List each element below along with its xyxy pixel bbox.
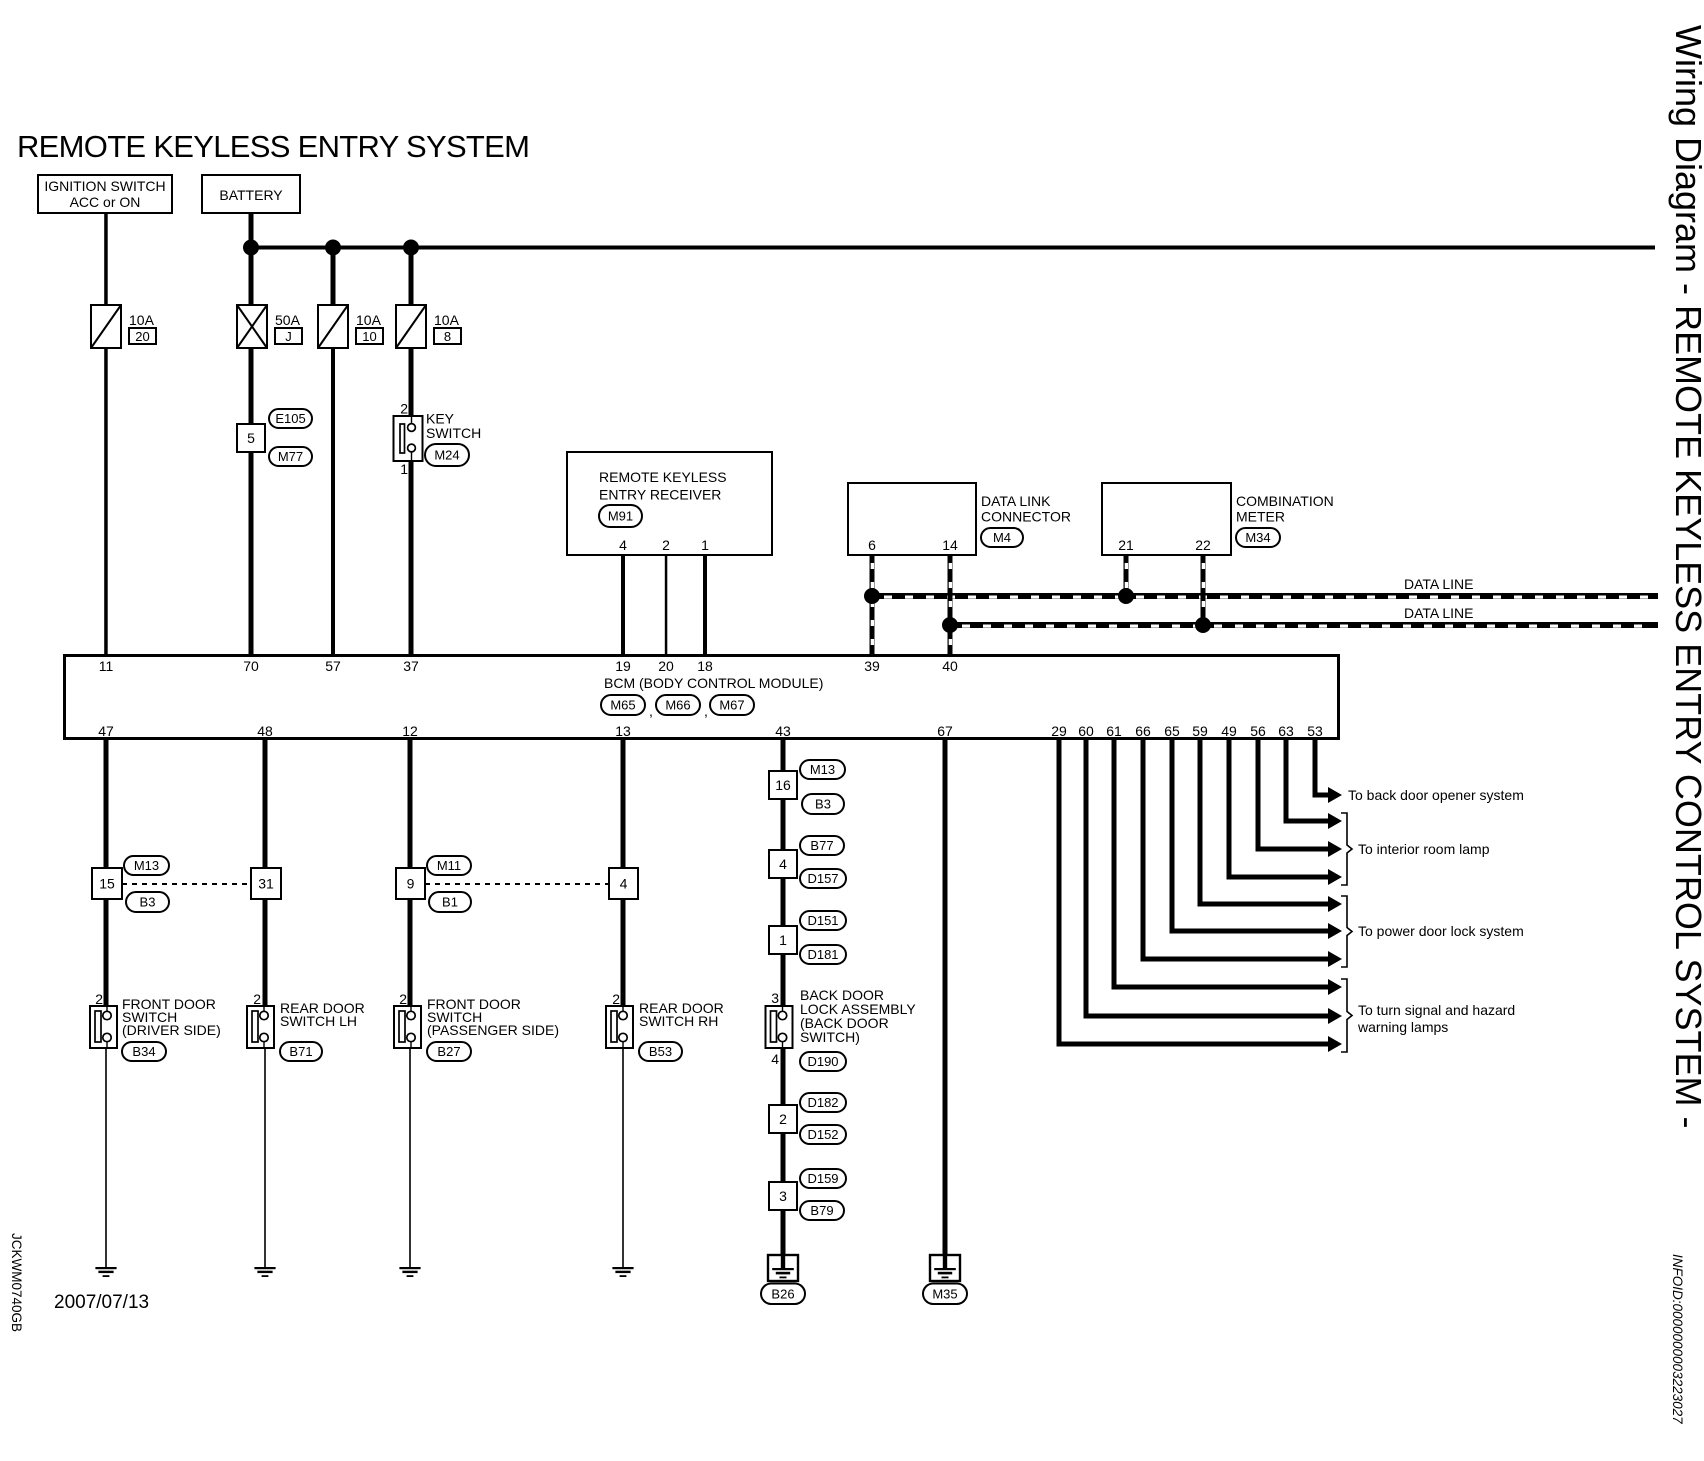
svg-text:M77: M77 (278, 449, 303, 464)
node To power door lock system (1358, 923, 1524, 939)
wire BCM pin 56 output (1256, 740, 1343, 857)
key switch label (426, 411, 481, 442)
svg-text:REMOTE KEYLESS: REMOTE KEYLESS (599, 469, 727, 485)
BCM pin 63 (1278, 723, 1294, 739)
svg-text:To power door lock system: To power door lock system (1358, 923, 1524, 939)
svg-text:14: 14 (942, 537, 958, 553)
svg-text:3: 3 (779, 1188, 787, 1204)
wire BCM pin 65 output (1170, 740, 1343, 939)
wire connector 9 to front door switch passenger side (408, 899, 413, 1006)
svg-text:M67: M67 (719, 698, 744, 713)
wire connector 15 to front door switch driver side (104, 899, 109, 1006)
svg-text:D181: D181 (807, 947, 838, 962)
svg-text:18: 18 (697, 658, 713, 674)
connector B53 (639, 1042, 682, 1061)
wire BCM pin 43 to connector 16 (781, 740, 786, 771)
svg-text:22: 22 (1195, 537, 1211, 553)
wire connector 1 to back door switch pin 3 (781, 954, 786, 1006)
wire ignition switch to fuse 20 (104, 213, 108, 305)
meter pin 22 (1195, 537, 1211, 553)
connector 4 (609, 868, 638, 899)
svg-text:To interior room lamp: To interior room lamp (1358, 841, 1490, 857)
svg-text:M34: M34 (1245, 530, 1270, 545)
BCM pin 43 (775, 723, 791, 739)
data line 2 label (1404, 605, 1474, 621)
svg-text:B53: B53 (649, 1044, 672, 1059)
svg-text:Wiring Diagram - REMOTE KEYLES: Wiring Diagram - REMOTE KEYLESS ENTRY CO… (1668, 25, 1704, 1129)
wire door switch B71 to ground (264, 1048, 266, 1267)
svg-text:SWITCH: SWITCH (426, 425, 481, 441)
ground (body earth) for B27 (399, 1267, 420, 1277)
svg-text:2: 2 (253, 991, 261, 1007)
svg-text:ACC or ON: ACC or ON (70, 194, 141, 210)
svg-text:(PASSENGER SIDE): (PASSENGER SIDE) (427, 1022, 559, 1038)
svg-text:50A: 50A (275, 312, 301, 328)
svg-text:D157: D157 (807, 871, 838, 886)
front door switch (passenger side) B27 (394, 996, 559, 1048)
wire receiver pin 2 to BCM pin 20 (665, 555, 668, 654)
ground M35 (boxed earth) (930, 1254, 960, 1281)
BCM pin 40 (942, 658, 958, 674)
connector M77 (269, 447, 312, 466)
svg-text:2: 2 (779, 1111, 787, 1127)
connector B79 (800, 1201, 844, 1220)
svg-text:D182: D182 (807, 1095, 838, 1110)
wire DLC pin 6 to BCM pin 39 (shielded) (870, 555, 875, 654)
connector B34 (122, 1042, 166, 1061)
infoid code (1670, 1254, 1685, 1424)
BCM pin 60 (1078, 723, 1094, 739)
svg-text:67: 67 (937, 723, 953, 739)
svg-text:13: 13 (615, 723, 631, 739)
svg-text:warning lamps: warning lamps (1357, 1019, 1448, 1035)
wire meter pin 22 to data line 2 (shielded) (1201, 555, 1206, 625)
connector M4 (981, 528, 1023, 547)
rear door switch LH pin 2 (253, 991, 261, 1007)
fuse 10A [20] (91, 305, 156, 348)
node To turn signal and hazard warning lamps (1357, 1002, 1515, 1035)
svg-text:B3: B3 (140, 895, 156, 910)
wire bus to fuse 8 (409, 247, 414, 305)
side caption Wiring Diagram - REMOTE KEYLESS ENTRY CONTROL SYSTEM - (1668, 25, 1704, 1129)
connector 4 (B77/D157) (769, 850, 797, 878)
svg-text:10A: 10A (129, 312, 155, 328)
connector 3 (D159/B79) (769, 1182, 797, 1210)
BCM pin 66 (1135, 723, 1151, 739)
svg-text:B71: B71 (289, 1044, 312, 1059)
connector D151 (800, 911, 846, 930)
wire BCM pin 66 output (1141, 740, 1343, 967)
rear door switch RH B53 (606, 1000, 724, 1048)
connector E105 (269, 409, 312, 428)
BCM pin 48 (257, 723, 273, 739)
connector 5 (E105/M77) (237, 424, 265, 452)
data line 2 (CAN-L) (950, 622, 1658, 628)
receiver pin 2 (662, 537, 670, 553)
svg-text:DATA LINK: DATA LINK (981, 493, 1051, 509)
BCM pin 13 (615, 723, 631, 739)
svg-text:M11: M11 (437, 858, 461, 873)
svg-text:16: 16 (775, 777, 791, 793)
connector M13 (800, 760, 845, 779)
power source IGNITION SWITCH ACC or ON (38, 175, 172, 213)
wire connector 3 to ground B26 (781, 1210, 786, 1255)
svg-text:1: 1 (779, 932, 787, 948)
node To interior room lamp (1358, 841, 1490, 857)
svg-text:29: 29 (1051, 723, 1067, 739)
BCM pin 57 (325, 658, 341, 674)
ground B26 (boxed earth) (768, 1254, 798, 1281)
svg-text:59: 59 (1192, 723, 1208, 739)
svg-text:31: 31 (258, 876, 274, 892)
connector 15 (M13/B3) (92, 868, 122, 899)
wire BCM pin 53 output (1313, 740, 1343, 803)
node To back door opener system (1348, 787, 1524, 803)
svg-text:4: 4 (620, 876, 628, 892)
fuse 10A [10] (318, 305, 383, 348)
connector B26 (761, 1284, 805, 1305)
BCM pin 61 (1106, 723, 1122, 739)
svg-text:REMOTE KEYLESS ENTRY SYSTEM: REMOTE KEYLESS ENTRY SYSTEM (17, 129, 529, 164)
BCM pin 59 (1192, 723, 1208, 739)
connector 1 (D151/D181) (769, 926, 797, 954)
figure code JCKWM0740GB (9, 1233, 24, 1332)
wire receiver pin 1 to BCM pin 18 (703, 555, 707, 654)
battery bus wire (251, 246, 1655, 250)
meter pin 21 (1118, 537, 1134, 553)
connector 2 (D182/D152) (769, 1105, 797, 1133)
svg-text:70: 70 (243, 658, 259, 674)
wire door switch B34 to ground (105, 1048, 107, 1267)
back door switch pin 3 (771, 990, 779, 1006)
svg-text:M35: M35 (932, 1286, 957, 1301)
svg-text:B27: B27 (437, 1044, 460, 1059)
svg-text:To back door opener system: To back door opener system (1348, 787, 1524, 803)
connector 31 (251, 868, 281, 899)
svg-text:D190: D190 (807, 1054, 838, 1069)
svg-text:53: 53 (1307, 723, 1323, 739)
svg-text:65: 65 (1164, 723, 1180, 739)
connector M34 (1236, 528, 1280, 547)
svg-text:,: , (649, 703, 653, 719)
wire connector 4 to connector 1 (781, 878, 786, 926)
svg-text:IGNITION SWITCH: IGNITION SWITCH (44, 178, 165, 194)
svg-text:56: 56 (1250, 723, 1266, 739)
dashed link connector 15 to connector 31 (122, 883, 251, 885)
svg-text:10: 10 (362, 329, 376, 344)
svg-text:B3: B3 (815, 797, 831, 812)
svg-text:3: 3 (771, 990, 779, 1006)
connector B3 (126, 892, 169, 912)
connector 9 (M11/B1) (396, 868, 425, 899)
wire BCM pin 12 to connector 9 (408, 740, 413, 868)
receiver pin 4 (619, 537, 627, 553)
connector 16 (M13/B3) (769, 771, 797, 799)
BCM pin 47 (98, 723, 114, 739)
svg-text:M66: M66 (665, 698, 690, 713)
BCM pin 11 (99, 658, 114, 674)
junction battery bus at fuse 10 (325, 240, 341, 256)
svg-text:6: 6 (868, 537, 876, 553)
front door switch driver side pin 2 (95, 991, 103, 1007)
BCM (body control module) M65 M66 M67 (65, 656, 1339, 739)
fusible link 50A [J] (237, 305, 302, 348)
wire connector 16 to connector 4 (781, 799, 786, 850)
connector D190 (800, 1052, 846, 1071)
receiver pin 1 (701, 537, 709, 553)
connector D181 (800, 945, 846, 964)
svg-text:M24: M24 (434, 448, 459, 463)
svg-text:37: 37 (403, 658, 419, 674)
svg-text:SWITCH): SWITCH) (800, 1029, 860, 1045)
svg-text:11: 11 (99, 658, 114, 674)
connector D157 (800, 869, 846, 888)
svg-text:B79: B79 (810, 1203, 833, 1218)
BCM pin 19 (615, 658, 631, 674)
key switch pin 1 (400, 461, 408, 477)
svg-text:BATTERY: BATTERY (219, 187, 283, 203)
svg-text:M13: M13 (810, 762, 835, 777)
connector B3 (802, 794, 844, 814)
svg-text:BCM (BODY CONTROL MODULE): BCM (BODY CONTROL MODULE) (604, 675, 823, 691)
svg-text:2: 2 (399, 991, 407, 1007)
ground (body earth) for B71 (254, 1267, 275, 1277)
wire battery down to bus (249, 213, 254, 305)
wire BCM pin 60 output (1084, 740, 1343, 1024)
svg-text:DATA LINE: DATA LINE (1404, 576, 1474, 592)
BCM pin 49 (1221, 723, 1237, 739)
power source BATTERY (202, 175, 300, 213)
wire BCM pin 13 to connector 4 (621, 740, 626, 868)
junction data line 1 / meter pin 21 (1118, 588, 1134, 604)
date (54, 1292, 149, 1313)
svg-text:10A: 10A (434, 312, 460, 328)
BCM pin 39 (864, 658, 880, 674)
svg-text:4: 4 (779, 856, 787, 872)
svg-text:4: 4 (619, 537, 627, 553)
svg-text:2: 2 (612, 991, 620, 1007)
connector M35 (923, 1284, 967, 1305)
connector M24 (425, 444, 469, 466)
svg-text:1: 1 (400, 461, 408, 477)
fuse 10A [8] (396, 305, 461, 348)
wire BCM pin 29 output (1057, 740, 1343, 1052)
svg-text:12: 12 (402, 723, 418, 739)
back door switch pin 4 (771, 1051, 779, 1067)
wire BCM pin 48 to connector 31 (263, 740, 268, 868)
wire connector 4 to rear door switch RH (621, 899, 626, 1006)
BCM pin 37 (403, 658, 419, 674)
svg-text:60: 60 (1078, 723, 1094, 739)
connector D182 (800, 1093, 846, 1112)
svg-text:48: 48 (257, 723, 273, 739)
BCM pin 12 (402, 723, 418, 739)
DLC pin 14 (942, 537, 958, 553)
key switch M24 (394, 416, 423, 461)
svg-text:To turn signal and hazard: To turn signal and hazard (1358, 1002, 1515, 1018)
connector M65 (601, 695, 645, 715)
wire fuse 10 to BCM pin 57 (331, 348, 335, 654)
svg-text:8: 8 (444, 329, 451, 344)
rear door switch LH B71 (247, 1000, 365, 1048)
junction data line 2 / meter pin 22 (1195, 617, 1211, 633)
BCM pin 65 (1164, 723, 1180, 739)
wire door switch B27 to ground (409, 1048, 411, 1267)
BCM pin 67 (937, 723, 953, 739)
svg-text:2: 2 (400, 401, 408, 417)
svg-text:COMBINATION: COMBINATION (1236, 493, 1334, 509)
svg-text:J: J (285, 329, 292, 344)
wire connector 5 to BCM pin 70 (249, 452, 254, 654)
junction data line 1 / DLC pin 6 (864, 588, 880, 604)
wire door switch B53 to ground (622, 1048, 624, 1267)
wire connector 2 to connector 3 (781, 1133, 786, 1182)
svg-text:21: 21 (1118, 537, 1134, 553)
svg-text:2: 2 (95, 991, 103, 1007)
svg-text:19: 19 (615, 658, 631, 674)
svg-text:47: 47 (98, 723, 114, 739)
connector B77 (800, 836, 844, 855)
combination meter M34 (1102, 483, 1334, 555)
connector B27 (427, 1042, 471, 1061)
svg-text:2007/07/13: 2007/07/13 (54, 1292, 149, 1313)
connector D152 (800, 1125, 846, 1144)
svg-text:M91: M91 (608, 509, 633, 524)
svg-text:ENTRY RECEIVER: ENTRY RECEIVER (599, 487, 721, 503)
ground (body earth) for B34 (95, 1267, 116, 1277)
wire meter pin 21 to data line 1 (shielded) (1124, 555, 1129, 596)
svg-text:M65: M65 (610, 698, 635, 713)
connector M13 (124, 856, 169, 875)
junction data line 2 / DLC pin 14 (942, 617, 958, 633)
BCM pin 18 (697, 658, 713, 674)
comma separator (704, 703, 708, 719)
wire key switch pin 1 to BCM pin 37 (409, 460, 414, 654)
wire fuse 20 to BCM pin 11 (104, 348, 108, 654)
svg-text:B26: B26 (771, 1286, 794, 1301)
wire back door switch pin 4 to connector 2 (781, 1048, 786, 1105)
wire BCM pin 47 to connector 15 (104, 740, 109, 868)
svg-text:D151: D151 (807, 913, 838, 928)
key switch pin 2 (400, 401, 408, 417)
wire BCM pin 61 output (1112, 740, 1343, 995)
svg-text:SWITCH LH: SWITCH LH (280, 1013, 357, 1029)
connector D159 (800, 1169, 846, 1188)
svg-text:39: 39 (864, 658, 880, 674)
svg-text:M13: M13 (134, 858, 159, 873)
brace power door lock group (1341, 896, 1352, 967)
svg-text:40: 40 (942, 658, 958, 674)
data line 1 label (1404, 576, 1474, 592)
junction battery bus at fuse J (243, 240, 259, 256)
svg-text:D152: D152 (807, 1127, 838, 1142)
BCM pin 29 (1051, 723, 1067, 739)
wire fuse 8 to key switch pin 2 (409, 348, 414, 417)
brace turn signal group (1341, 979, 1352, 1052)
svg-text:2: 2 (662, 537, 670, 553)
ground (body earth) for B53 (612, 1267, 633, 1277)
front door switch (driver side) B34 (90, 996, 221, 1048)
comma separator (649, 703, 653, 719)
svg-text:D159: D159 (807, 1171, 838, 1186)
dashed link connector 9 to connector 4 (425, 883, 609, 885)
svg-text:63: 63 (1278, 723, 1294, 739)
svg-text:66: 66 (1135, 723, 1151, 739)
connector B1 (429, 892, 471, 912)
svg-text:5: 5 (247, 430, 255, 446)
svg-text:E105: E105 (275, 411, 305, 426)
svg-text:61: 61 (1106, 723, 1122, 739)
BCM pin 20 (658, 658, 674, 674)
svg-text:CONNECTOR: CONNECTOR (981, 509, 1071, 525)
front door switch passenger side pin 2 (399, 991, 407, 1007)
wire bus to fuse 10 (331, 247, 336, 305)
wire DLC pin 14 to BCM pin 40 (shielded) (948, 555, 953, 654)
wire fuse J to connector 5 (249, 348, 254, 424)
svg-text:20: 20 (135, 329, 149, 344)
svg-text:JCKWM0740GB: JCKWM0740GB (9, 1233, 24, 1332)
diagram title (17, 129, 529, 164)
data link connector M4 (848, 483, 1071, 555)
svg-text:10A: 10A (356, 312, 382, 328)
connector M91 (599, 505, 642, 527)
svg-text:DATA LINE: DATA LINE (1404, 605, 1474, 621)
svg-text:(DRIVER SIDE): (DRIVER SIDE) (122, 1022, 221, 1038)
svg-text:,: , (704, 703, 708, 719)
svg-text:SWITCH RH: SWITCH RH (639, 1013, 718, 1029)
connector B71 (280, 1042, 322, 1061)
data line 1 (CAN-H) (872, 593, 1658, 599)
svg-text:B34: B34 (132, 1044, 155, 1059)
svg-text:43: 43 (775, 723, 791, 739)
wire connector 31 to rear door switch LH (263, 899, 268, 1006)
brace interior room lamp group (1341, 813, 1352, 885)
connector M66 (656, 695, 700, 715)
svg-text:INFOID:0000000003223027: INFOID:0000000003223027 (1670, 1254, 1685, 1424)
svg-text:15: 15 (99, 876, 115, 892)
connector M11 (427, 856, 471, 875)
connector M67 (710, 695, 754, 715)
back door lock assembly (back door switch) D190 (766, 987, 917, 1048)
svg-text:METER: METER (1236, 509, 1285, 525)
wire receiver pin 4 to BCM pin 19 (621, 555, 625, 654)
wire BCM pin 49 output (1227, 740, 1343, 885)
remote keyless entry receiver M91 (567, 452, 772, 555)
svg-text:57: 57 (325, 658, 341, 674)
DLC pin 6 (868, 537, 876, 553)
svg-text:B77: B77 (810, 838, 833, 853)
svg-text:9: 9 (407, 876, 415, 892)
svg-text:4: 4 (771, 1051, 779, 1067)
rear door switch RH pin 2 (612, 991, 620, 1007)
wire BCM pin 63 output (1284, 740, 1343, 829)
BCM pin 53 (1307, 723, 1323, 739)
svg-text:49: 49 (1221, 723, 1237, 739)
svg-text:20: 20 (658, 658, 674, 674)
BCM pin 56 (1250, 723, 1266, 739)
junction battery bus at fuse 8 (403, 240, 419, 256)
svg-text:M4: M4 (993, 530, 1011, 545)
wire BCM pin 67 to ground M35 (943, 740, 948, 1255)
wire BCM pin 59 output (1198, 740, 1343, 912)
svg-text:1: 1 (701, 537, 709, 553)
BCM pin 70 (243, 658, 259, 674)
svg-text:B1: B1 (442, 895, 458, 910)
